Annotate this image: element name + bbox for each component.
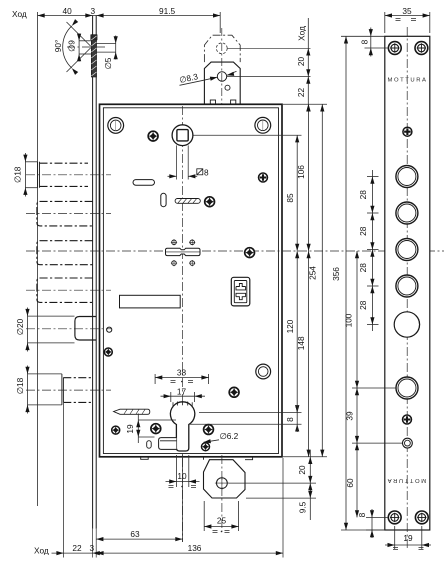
svg-text:MOTTURA: MOTTURA	[386, 477, 426, 483]
extension line cam top right	[189, 423, 302, 425]
extension line 91.5 right	[219, 12, 221, 33]
svg-text:8: 8	[357, 512, 367, 517]
dimension line stroke/20/22 right of tab	[307, 18, 309, 104]
handle follower square 8mm	[172, 125, 193, 146]
svg-text:120: 120	[285, 319, 295, 333]
spring bar above cylinder	[114, 409, 150, 414]
svg-text:85: 85	[285, 193, 295, 203]
extension line follower center right	[194, 134, 302, 136]
bottom tab center line	[221, 455, 223, 532]
svg-text:20: 20	[297, 465, 307, 475]
plate phillips screw upper	[403, 127, 412, 136]
svg-text:8: 8	[204, 168, 209, 178]
svg-text:19: 19	[125, 424, 135, 434]
svg-text:∅18: ∅18	[13, 166, 23, 183]
dimension 20 body bottom to tab hole	[309, 450, 311, 520]
leader dia 8.3	[180, 77, 217, 85]
dimension 85 follower to center	[296, 135, 298, 251]
rivet bottom right	[256, 364, 271, 379]
main horizontal center line	[26, 250, 444, 252]
dimension dia 20 latch	[28, 308, 75, 352]
pin center line	[67, 46, 105, 48]
label square 8	[197, 169, 203, 175]
svg-text:28: 28	[358, 263, 368, 273]
extension line cylinder center right	[199, 412, 302, 414]
dimension 106 body top to center	[308, 104, 310, 251]
svg-text:40: 40	[63, 6, 73, 16]
dimension 254 body height	[321, 104, 323, 457]
lock body outer case	[100, 104, 283, 457]
stroke extension line from anti-saw bolt	[62, 403, 64, 558]
dimension 148 center to body bottom	[308, 251, 310, 457]
euro profile cylinder	[170, 402, 194, 451]
tab center line	[221, 28, 223, 113]
screw S5 left edge	[104, 348, 112, 356]
screw S4 right column light	[259, 173, 268, 182]
dimension 63 plate to cylinder	[96, 538, 182, 540]
svg-text:Ход: Ход	[297, 26, 307, 41]
svg-text:3: 3	[91, 6, 96, 16]
svg-text:22: 22	[296, 88, 306, 98]
extension line body right bottom	[282, 458, 284, 558]
svg-text:∅5: ∅5	[103, 57, 113, 69]
svg-text:8: 8	[360, 39, 370, 44]
deadbolt B1 center line	[26, 174, 111, 176]
anti-saw bolt center line	[26, 389, 111, 391]
body bottom step line	[141, 457, 253, 460]
deadbolt B2 hidden	[37, 201, 93, 226]
rack pivot hole top left	[171, 239, 177, 245]
anti-saw bolt phantom edges	[63, 378, 92, 403]
plate phillips screw lower	[403, 415, 412, 424]
slot stadium upper left	[133, 180, 155, 186]
svg-text:39: 39	[345, 411, 355, 421]
svg-text:19: 19	[403, 533, 413, 543]
svg-text:∅18: ∅18	[15, 377, 25, 394]
angle arc 90 degrees	[63, 26, 72, 68]
dimension dia 18 bottom	[28, 366, 62, 414]
svg-text:28: 28	[358, 226, 368, 236]
top tab bracket solid	[204, 62, 240, 104]
dimension line 91.5 top	[93, 15, 221, 17]
tab small hole	[225, 85, 230, 90]
screw S3 on center line	[245, 248, 255, 258]
dimension 10 cylinder foot	[166, 455, 200, 487]
extension line body top right	[283, 103, 327, 105]
dimension 8 plate bottom	[366, 509, 388, 538]
svg-text:20: 20	[296, 57, 306, 67]
small round hole left edge	[107, 327, 112, 332]
dimension 8 plate top	[365, 28, 389, 57]
dimension 60 pin hole to bottom screws	[356, 443, 358, 517]
svg-text:Ход: Ход	[12, 9, 27, 19]
cylinder clamp ticks above circle	[173, 401, 192, 407]
small vertical oval slot	[161, 193, 166, 206]
rack pivot hole top right	[189, 239, 195, 245]
latch bolt dia 20	[75, 317, 96, 341]
small slot left of cam	[147, 441, 152, 449]
dimension 19 bottom screws	[385, 526, 431, 549]
electric contact block	[231, 277, 250, 306]
extension line from tab phantom hole	[227, 47, 310, 49]
anti-saw bolt hole	[396, 377, 418, 399]
front faceplate (right view)	[385, 36, 430, 530]
dimension 22 stroke bottom	[56, 551, 63, 555]
bottom bracket tab octagon	[204, 460, 246, 498]
svg-text:148: 148	[296, 336, 306, 350]
tab hole phantom position (dashed circle)	[216, 43, 227, 54]
faceplate screw hole top left	[388, 42, 401, 55]
main vertical center line through follower and cylinder	[182, 106, 184, 542]
svg-text:∅9: ∅9	[67, 40, 77, 52]
extension line body bottom right	[283, 456, 327, 458]
extension line tab hole right	[229, 482, 317, 484]
bottom tab hole	[215, 476, 229, 490]
bolt hole H2	[396, 202, 418, 224]
deadbolt B1 thrown face	[38, 162, 40, 188]
extension line cylinder center bottom	[182, 455, 184, 542]
deadbolt B3 hidden	[37, 241, 93, 265]
bolt hole H1	[396, 166, 418, 188]
dimension 120 center to cylinder	[296, 251, 298, 413]
deadbolt B2 center line	[26, 213, 111, 215]
anti-saw bolt dia 18 bottom thrown face	[62, 374, 64, 405]
faceplate screw hole top right	[415, 42, 428, 55]
extension line small pin hole	[352, 442, 402, 444]
svg-text:8: 8	[285, 417, 295, 422]
deadbolt B4 hidden	[37, 278, 93, 302]
lever bar hatched mid	[175, 199, 200, 204]
svg-text:60: 60	[345, 478, 355, 488]
screw S6 near cylinder right	[229, 387, 239, 397]
dimension square 8 of follower	[168, 175, 177, 177]
dimension 100 center to anti-saw hole	[352, 251, 396, 443]
rivet top left	[108, 118, 124, 134]
screw S8 cylinder right	[204, 425, 214, 435]
bolt hole H3	[396, 239, 418, 261]
svg-text:9.5: 9.5	[298, 501, 308, 513]
dimension dia 5 of pin tip	[96, 36, 115, 60]
slide plate rectangle lower left	[120, 295, 181, 308]
plate pin hole small	[403, 438, 413, 448]
svg-text:28: 28	[358, 190, 368, 200]
follower guide lines down	[177, 145, 189, 179]
rack pivot hole bottom right	[189, 260, 195, 266]
svg-text:63: 63	[130, 529, 140, 539]
svg-text:28: 28	[358, 300, 368, 310]
latch hole big	[394, 312, 419, 337]
svg-text:91.5: 91.5	[159, 6, 176, 16]
dimension line 40 top	[38, 15, 93, 17]
dimension 356 plate height	[341, 36, 385, 530]
extension line from tab hole	[227, 76, 311, 78]
lock body inner cover line	[103, 108, 278, 454]
screw S7 cylinder left	[151, 424, 161, 434]
svg-text:106: 106	[296, 165, 306, 179]
svg-text:∅6.2: ∅6.2	[220, 431, 239, 441]
pin stud hatched (edge view)	[91, 35, 97, 77]
extension of faceplate lines to bottom dims	[93, 529, 97, 558]
faceplate center line	[406, 27, 408, 548]
top tab phantom extended position (dash-dot)	[204, 35, 240, 62]
svg-text:38: 38	[177, 367, 187, 377]
arrows top dims	[38, 13, 45, 17]
angle rays 90 degrees	[67, 22, 92, 72]
dimension 25 bottom tab	[204, 501, 238, 531]
deadbolt B4 center line	[26, 289, 111, 291]
cylinder cam	[159, 438, 177, 450]
dimension 9.5 tab hole to tab bottom	[308, 483, 312, 490]
faceplate edge seen from side (double line)	[93, 16, 97, 529]
tab locating lug right	[231, 100, 236, 104]
dimension 8 cylinder to cam	[295, 405, 299, 412]
svg-text:90°: 90°	[53, 40, 63, 53]
svg-text:356: 356	[331, 267, 341, 281]
screw S1 left of follower	[148, 131, 158, 141]
dimension 35 plate width	[385, 12, 430, 33]
svg-text:35: 35	[402, 6, 412, 16]
rivet top right	[255, 117, 271, 133]
dimension dia 18 bolt B1	[25, 153, 37, 197]
dimension 38 cylinder screws	[155, 374, 209, 384]
tab locating lug left	[210, 100, 215, 104]
svg-text:3: 3	[89, 543, 94, 553]
dimension 19 cam	[138, 414, 176, 444]
svg-text:22: 22	[72, 543, 82, 553]
rack pivot hole bottom left	[171, 260, 177, 266]
latch center line	[26, 328, 111, 330]
svg-text:∅20: ∅20	[15, 318, 25, 335]
leader dia 6.2	[204, 440, 220, 443]
svg-text:MOTTURA: MOTTURA	[388, 78, 428, 84]
screw S2 mid lever	[205, 197, 215, 207]
dimension dia 9 of pin	[79, 34, 91, 62]
faceplate screw hole bottom left	[388, 511, 401, 524]
svg-text:254: 254	[307, 266, 317, 280]
svg-text:17: 17	[177, 386, 187, 396]
dimension 17 cylinder diameter	[161, 392, 206, 402]
screw S10 left lower	[112, 426, 120, 434]
svg-text:136: 136	[188, 543, 202, 553]
dimension chain 28 x4 plate holes	[367, 170, 379, 331]
svg-text:25: 25	[217, 516, 227, 526]
dimension 136 plate to body right	[52, 552, 284, 554]
svg-text:Ход: Ход	[34, 546, 49, 556]
deadbolt B1 phantom edges	[40, 163, 89, 186]
faceplate screw hole bottom right	[415, 511, 428, 524]
bolt hole H4	[396, 275, 418, 297]
extension line stroke travel left	[37, 12, 39, 506]
screw S9 below right dia 6.2	[202, 443, 210, 451]
svg-text:100: 100	[344, 313, 354, 327]
gear rack butterfly part center	[166, 248, 201, 255]
tab mounting hole dia 8.3	[217, 72, 226, 81]
extension line tab bottom right	[246, 497, 316, 499]
